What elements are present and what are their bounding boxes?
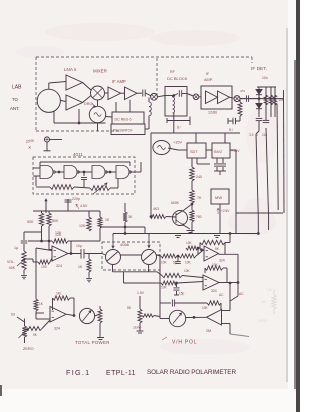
svg-text:240: 240 bbox=[196, 175, 202, 179]
svg-text:ANT.: ANT. bbox=[10, 106, 20, 111]
svg-text:FIG.1: FIG.1 bbox=[66, 368, 90, 377]
svg-text:MW: MW bbox=[215, 195, 222, 200]
svg-text:LAB: LAB bbox=[12, 85, 22, 91]
svg-text:VOL.: VOL. bbox=[7, 260, 15, 264]
svg-text:4K3: 4K3 bbox=[153, 207, 159, 211]
svg-text:324: 324 bbox=[54, 327, 60, 331]
svg-text:4.5V: 4.5V bbox=[80, 204, 88, 208]
svg-text:IF DET.: IF DET. bbox=[251, 66, 267, 72]
svg-text:324: 324 bbox=[211, 289, 217, 293]
svg-text:600K: 600K bbox=[171, 201, 180, 205]
svg-text:10K: 10K bbox=[161, 261, 168, 265]
svg-text:12K: 12K bbox=[79, 224, 86, 228]
svg-text:DRO: DRO bbox=[84, 102, 92, 106]
svg-text:1K: 1K bbox=[78, 265, 83, 269]
svg-text:ETPL-11: ETPL-11 bbox=[106, 370, 136, 377]
svg-text:3.3: 3.3 bbox=[249, 133, 254, 137]
svg-text:1.5V: 1.5V bbox=[266, 288, 273, 292]
svg-text:10K: 10K bbox=[186, 241, 193, 245]
svg-text:780: 780 bbox=[196, 215, 202, 219]
svg-text:AC: AC bbox=[219, 293, 224, 297]
svg-text:10K: 10K bbox=[212, 263, 219, 267]
svg-text:5K: 5K bbox=[262, 300, 267, 304]
svg-text:+2.5V: +2.5V bbox=[221, 209, 230, 213]
svg-text:63: 63 bbox=[11, 313, 15, 317]
svg-text:5K: 5K bbox=[127, 306, 132, 310]
svg-text:7K: 7K bbox=[197, 196, 202, 200]
svg-text:8 /: 8 / bbox=[177, 126, 181, 130]
svg-text:1K: 1K bbox=[105, 218, 110, 222]
svg-text:4066: 4066 bbox=[120, 242, 130, 247]
svg-text:AMP.: AMP. bbox=[204, 78, 213, 82]
svg-text:SOLAR RADIO POLARIMETER: SOLAR RADIO POLARIMETER bbox=[147, 369, 236, 376]
svg-text:TOTAL POWER: TOTAL POWER bbox=[75, 340, 110, 345]
svg-text:220p: 220p bbox=[72, 197, 80, 201]
svg-text:INV2: INV2 bbox=[214, 150, 222, 154]
svg-text:ZERO: ZERO bbox=[23, 347, 34, 351]
svg-text:12dB: 12dB bbox=[208, 111, 217, 115]
svg-text:V/H POL: V/H POL bbox=[172, 340, 197, 346]
svg-text:60K: 60K bbox=[9, 266, 16, 270]
svg-text:PIN SWITCH: PIN SWITCH bbox=[113, 129, 133, 133]
svg-text:15p: 15p bbox=[179, 292, 185, 296]
svg-text:10K: 10K bbox=[184, 269, 191, 273]
svg-text:DC BLOCK: DC BLOCK bbox=[167, 76, 188, 81]
svg-text:LNA s: LNA s bbox=[64, 67, 77, 72]
svg-text:1M.: 1M. bbox=[56, 292, 62, 296]
svg-text:ZERO: ZERO bbox=[133, 326, 142, 330]
svg-text:100: 100 bbox=[41, 265, 47, 269]
svg-text:12K: 12K bbox=[55, 233, 62, 237]
svg-text:470: 470 bbox=[240, 89, 245, 93]
svg-text:RF: RF bbox=[170, 70, 176, 74]
svg-text:5p: 5p bbox=[173, 261, 177, 265]
svg-text:10n: 10n bbox=[262, 76, 268, 80]
svg-text:AC: AC bbox=[239, 292, 244, 296]
svg-text:4011: 4011 bbox=[73, 152, 83, 157]
svg-text:10K: 10K bbox=[202, 306, 209, 310]
svg-text:TO: TO bbox=[12, 97, 18, 102]
svg-text:50K: 50K bbox=[27, 220, 34, 224]
svg-text:1μ: 1μ bbox=[14, 246, 18, 250]
svg-text:IF AMP: IF AMP bbox=[112, 79, 126, 84]
svg-text:50K: 50K bbox=[52, 219, 59, 223]
svg-text:✕: ✕ bbox=[28, 146, 31, 150]
svg-text:SDT: SDT bbox=[190, 150, 198, 154]
svg-text:3K: 3K bbox=[128, 215, 133, 219]
svg-text:10K: 10K bbox=[185, 261, 192, 265]
svg-text:10μ: 10μ bbox=[76, 244, 82, 248]
svg-text:DC REG 6: DC REG 6 bbox=[115, 118, 132, 122]
svg-text:324: 324 bbox=[219, 259, 225, 263]
svg-text:10K: 10K bbox=[161, 286, 168, 290]
svg-text:324: 324 bbox=[56, 264, 62, 268]
svg-text:MIXER: MIXER bbox=[93, 69, 107, 74]
svg-text:8 I: 8 I bbox=[229, 128, 233, 132]
svg-text:1.5V: 1.5V bbox=[137, 291, 145, 295]
svg-text:ZERO: ZERO bbox=[258, 319, 268, 323]
svg-text:+15V: +15V bbox=[173, 141, 182, 145]
svg-text:2M: 2M bbox=[206, 329, 211, 333]
